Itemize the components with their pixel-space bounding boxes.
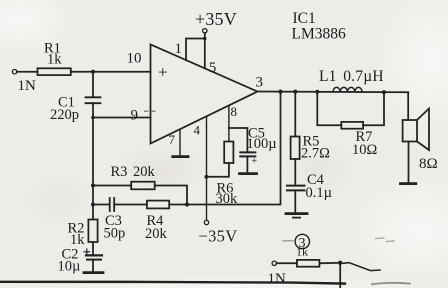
svg-text:+35V: +35V xyxy=(195,9,237,29)
capacitor C2 (electrolytic) xyxy=(86,254,102,256)
C5 polarity mark xyxy=(253,159,257,162)
bottom figure: switch blade wire xyxy=(343,263,380,271)
junction dot L1 left xyxy=(315,90,319,94)
resistor R2 xyxy=(88,220,97,243)
ground under C5 xyxy=(246,156,248,172)
wire C1 to node B xyxy=(92,103,94,117)
svg-text:7: 7 xyxy=(169,132,176,147)
svg-text:3: 3 xyxy=(256,75,264,91)
junction dot on +35V line xyxy=(203,37,206,40)
capacitor C1 xyxy=(86,96,101,98)
svg-text:2.7Ω: 2.7Ω xyxy=(301,146,330,162)
wire R6 bottom xyxy=(207,163,229,177)
svg-text:−35V: −35V xyxy=(199,227,238,246)
capacitor C3 xyxy=(93,204,110,206)
bottom figure: resistor xyxy=(277,262,297,264)
op-amp U1 triangle xyxy=(151,45,258,144)
bottom figure: circled figure number 3 xyxy=(295,234,309,248)
input terminal 1N xyxy=(12,70,16,74)
feedback wire to output xyxy=(169,92,280,205)
wire node B down to R3 node xyxy=(92,118,94,186)
svg-text:9: 9 xyxy=(131,108,139,124)
resistor R5 xyxy=(294,92,296,137)
svg-text:20k: 20k xyxy=(133,164,156,180)
output rail wire xyxy=(258,91,409,94)
junction dot output/feedback xyxy=(278,90,282,94)
resistor R3 xyxy=(93,185,131,187)
resistor R1 xyxy=(17,71,38,73)
wire node A down to C1 xyxy=(92,72,94,97)
bottom figure: wire to junction xyxy=(319,262,340,265)
wire pin8 node to C5 xyxy=(229,127,248,129)
pin 1 bracket wire to +35V line xyxy=(186,39,205,61)
svg-text:4: 4 xyxy=(194,123,201,138)
-35V supply terminal xyxy=(204,220,208,224)
junction dot C3 node xyxy=(91,203,95,207)
ground under C4 xyxy=(294,190,296,212)
svg-text:1: 1 xyxy=(175,41,183,57)
bottom figure: input terminal 1N xyxy=(272,261,276,265)
speaker wire down xyxy=(407,92,409,120)
wire R1 to node A xyxy=(71,71,93,73)
wire R3 right to feedback node xyxy=(155,186,187,205)
svg-text:10µ: 10µ xyxy=(58,259,81,275)
svg-text:10: 10 xyxy=(127,51,142,67)
bottom right grey curve xyxy=(372,283,410,284)
svg-text:10Ω: 10Ω xyxy=(352,142,378,158)
capacitor C5 xyxy=(246,128,248,152)
inductor L1 xyxy=(333,87,362,92)
node A junction dot xyxy=(91,70,95,74)
svg-text:8Ω: 8Ω xyxy=(419,156,438,172)
pin 8 wire down xyxy=(228,106,230,142)
svg-text:220p: 220p xyxy=(50,107,79,123)
wire node B to op-amp pin 9 xyxy=(93,117,151,119)
wire R5 to C4 xyxy=(294,159,296,185)
junction dot on R3 left node xyxy=(91,184,95,188)
svg-text:1N: 1N xyxy=(268,271,287,287)
resistor R6 xyxy=(224,142,233,164)
svg-text:IC1: IC1 xyxy=(293,10,316,27)
wire R2 to C2 xyxy=(92,242,94,255)
capacitor C4 xyxy=(287,185,305,187)
wire +35V terminal down to pin 5 xyxy=(204,33,206,68)
C2 polarity plus xyxy=(84,249,90,255)
bottom figure: wire down xyxy=(339,263,341,288)
svg-text:30k: 30k xyxy=(216,191,239,207)
faint dashes right of circle xyxy=(376,238,395,242)
svg-text:0.1µ: 0.1µ xyxy=(306,185,332,201)
ground pin 7 xyxy=(179,129,181,156)
ground under C2 xyxy=(92,260,94,272)
svg-text:50p: 50p xyxy=(104,226,126,242)
ground under speaker xyxy=(401,182,416,185)
op-amp minus marker (faint) xyxy=(144,110,156,112)
resistor R4 xyxy=(114,204,147,206)
junction dot R6 to -35V line xyxy=(205,175,209,179)
+35V supply terminal xyxy=(203,29,207,33)
svg-text:1N: 1N xyxy=(18,78,37,94)
junction dot R5 branch xyxy=(293,90,297,94)
junction dot feedback node xyxy=(185,202,189,206)
wire speaker to ground xyxy=(408,142,410,183)
svg-text:8: 8 xyxy=(231,104,238,119)
svg-text:+: + xyxy=(158,63,168,82)
svg-text:20k: 20k xyxy=(145,226,168,242)
bottom rule line xyxy=(0,282,345,284)
wire node down to C3 node xyxy=(92,186,94,220)
svg-text:R3: R3 xyxy=(111,164,128,180)
svg-text:LM3886: LM3886 xyxy=(292,26,347,43)
svg-text:L1 0.7µH: L1 0.7µH xyxy=(319,68,384,85)
wire node A to op-amp pin 10 xyxy=(93,71,151,73)
svg-text:1k: 1k xyxy=(296,245,308,259)
junction dot L1 right xyxy=(382,90,386,94)
bottom figure: junction dot xyxy=(338,261,342,265)
resistor R7 parallel branch xyxy=(317,92,341,126)
node B junction dot xyxy=(91,116,95,120)
svg-text:100µ: 100µ xyxy=(247,136,277,152)
svg-text:1k: 1k xyxy=(47,52,62,68)
svg-text:5: 5 xyxy=(209,60,217,76)
speaker LS 8ohm xyxy=(403,120,417,142)
faint dash left of circle xyxy=(283,240,293,242)
pin 4 wire down to -35V terminal xyxy=(206,116,208,220)
